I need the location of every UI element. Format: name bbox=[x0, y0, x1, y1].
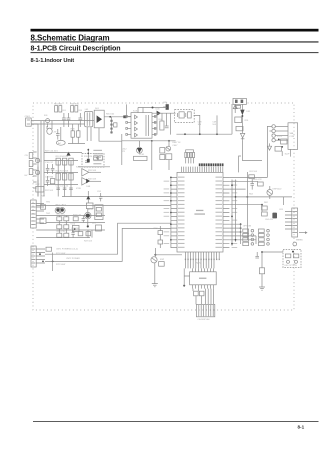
bridge diode D01 bbox=[94, 110, 104, 128]
junction dot ac bbox=[241, 115, 243, 117]
wire riser right of array bbox=[239, 156, 241, 172]
wire fan vert bbox=[159, 226, 161, 248]
diode D03 (dark) bbox=[123, 115, 126, 118]
label column right of MCU bbox=[232, 181, 238, 248]
wire mcu right runs bbox=[229, 177, 292, 239]
label ic05 bbox=[199, 278, 206, 279]
resistor R03 bbox=[71, 106, 74, 112]
IC02 bottom pins bbox=[185, 252, 219, 259]
svg-text:R01 R02: R01 R02 bbox=[54, 104, 63, 106]
ground G2 bbox=[259, 287, 265, 290]
junction dot buf bbox=[96, 157, 98, 159]
dotted frame of schematic bbox=[33, 103, 294, 310]
resistor R14 bbox=[62, 158, 66, 165]
wire vcc rail B bbox=[235, 180, 237, 242]
transistor Q02 bbox=[267, 190, 273, 200]
wire sense verticals bbox=[58, 161, 71, 197]
svg-text:R607 1K: R607 1K bbox=[172, 142, 181, 144]
capacitor C02 bbox=[67, 113, 71, 127]
bottom pin pads bbox=[185, 259, 220, 261]
svg-text:R47 103: R47 103 bbox=[84, 240, 93, 242]
fuse F01 bbox=[46, 119, 50, 123]
buffer dashed box bbox=[82, 154, 104, 167]
zener arrow (down open) bbox=[240, 133, 244, 140]
capacitor C24 bbox=[99, 193, 102, 201]
label column left of MCU bbox=[164, 181, 170, 244]
svg-text:R05 D02: R05 D02 bbox=[106, 114, 115, 116]
line filter L01 bbox=[85, 111, 93, 126]
junction dots zd bbox=[87, 149, 89, 151]
resistor R34 bbox=[57, 233, 62, 237]
resistor R05 bbox=[114, 123, 117, 127]
resistor R38 bbox=[71, 131, 74, 137]
microcontroller IC02 body bbox=[177, 172, 223, 252]
resistor R60 bbox=[160, 148, 165, 153]
buzzer BZ01 box bbox=[95, 205, 103, 220]
svg-text:R72 1/4W: R72 1/4W bbox=[56, 264, 65, 266]
resistor R16 bbox=[56, 173, 60, 180]
IC02 top pins bbox=[181, 167, 222, 173]
wire buf bottom bbox=[78, 166, 110, 168]
svg-text:WIRED: WIRED bbox=[296, 239, 303, 241]
resistor R48 bbox=[86, 232, 91, 236]
svg-text:KSP2222: KSP2222 bbox=[273, 188, 283, 190]
option resistor row8 bbox=[258, 242, 269, 245]
resistor R19 bbox=[94, 156, 98, 160]
wire sense risers bbox=[38, 161, 41, 197]
svg-text:R31 10K: R31 10K bbox=[88, 170, 97, 172]
svg-text:R13 R14 R15: R13 R14 R15 bbox=[56, 156, 69, 158]
plug circle P1 bbox=[36, 158, 40, 162]
svg-text:8-1-1.Indoor Unit: 8-1-1.Indoor Unit bbox=[31, 58, 75, 64]
resistor R24 bbox=[64, 217, 69, 221]
wire osc out bbox=[194, 115, 200, 134]
wire th verticals bbox=[59, 216, 66, 238]
wire inlet drops bbox=[234, 104, 236, 110]
wire th h3 bbox=[36, 229, 105, 231]
junction dot q01 bbox=[87, 225, 89, 227]
option resistor row4 bbox=[243, 242, 254, 245]
wire d02 column bbox=[111, 117, 113, 134]
wire disp verticals bbox=[193, 289, 214, 305]
resistor R61 bbox=[160, 155, 165, 160]
svg-text:R25 C15: R25 C15 bbox=[57, 231, 66, 233]
wire right rail bbox=[241, 115, 243, 160]
svg-text:TAB: TAB bbox=[289, 132, 294, 135]
capacitor C03 bbox=[78, 113, 82, 127]
wire bridge down bbox=[99, 128, 122, 141]
junction dot fan bbox=[154, 254, 156, 256]
wire sense top link bbox=[44, 152, 82, 154]
relay contact box bbox=[275, 147, 282, 152]
option resistor row5 bbox=[258, 229, 269, 232]
option resistor row7 bbox=[258, 238, 269, 241]
svg-text:R63 4.7K: R63 4.7K bbox=[253, 179, 262, 181]
option resistor row1 bbox=[243, 229, 254, 232]
wire to relay bbox=[242, 160, 262, 162]
svg-text:R09 C14 ZD1: R09 C14 ZD1 bbox=[45, 150, 59, 152]
wire cn04 stubs bbox=[285, 212, 292, 230]
resistor R07 bbox=[236, 105, 241, 108]
svg-text:C23 R46: C23 R46 bbox=[71, 228, 80, 230]
capacitor C07 bbox=[188, 112, 192, 118]
capacitor C22 bbox=[82, 216, 85, 223]
resistor R18 bbox=[69, 173, 73, 180]
svg-text:C10 C11 C12: C10 C11 C12 bbox=[56, 185, 69, 187]
relay RY01 coil box bbox=[281, 139, 287, 144]
wire vcc rail A bbox=[231, 180, 233, 246]
wire d09 bbox=[87, 191, 89, 203]
wire sw to left bbox=[262, 251, 283, 253]
svg-text:C612: C612 bbox=[122, 148, 128, 150]
svg-text:CN-DISPLAY: CN-DISPLAY bbox=[197, 318, 210, 321]
connector CN02 (left border, sensors) bbox=[31, 200, 37, 228]
svg-text:CN71 POWER(T-3.5-2): CN71 POWER(T-3.5-2) bbox=[56, 249, 78, 251]
header: section title bar bbox=[31, 29, 319, 64]
svg-text:R44 C22: R44 C22 bbox=[73, 214, 82, 216]
terminal circle 4 bbox=[272, 139, 288, 142]
wire top short bus bbox=[138, 107, 167, 109]
tact switch dashed box bbox=[283, 249, 301, 267]
varistor arrow (up) bbox=[233, 105, 237, 113]
wire sec bottom bus bbox=[122, 140, 176, 142]
wire mcu bottom joins bbox=[185, 259, 214, 269]
wire vcc rail bbox=[176, 133, 232, 135]
resistor array RA01 bbox=[185, 150, 195, 164]
svg-text:IC3A: IC3A bbox=[76, 165, 81, 168]
op-amp U2A bbox=[82, 169, 101, 176]
transistor Q03 bbox=[151, 248, 157, 263]
wire left pin rail bbox=[170, 177, 172, 247]
junction dots bus bbox=[240, 223, 242, 225]
diode D09 (up, dark) bbox=[86, 196, 90, 200]
capacitor C13 bbox=[85, 161, 89, 163]
resistor R15 bbox=[69, 158, 73, 165]
wire sw gnd chain bbox=[261, 252, 263, 287]
resistor R36 bbox=[50, 179, 54, 184]
svg-text:BUZ1: BUZ1 bbox=[88, 209, 94, 211]
wire fan tap bbox=[155, 254, 182, 256]
capacitor C20 bbox=[250, 179, 254, 190]
resistor R55 bbox=[199, 291, 204, 296]
resistor R08 bbox=[235, 117, 242, 123]
svg-text:CON: CON bbox=[289, 136, 294, 138]
connector CN05 display bbox=[196, 304, 214, 316]
resistor R23 bbox=[57, 217, 62, 221]
svg-text:C16 C17: C16 C17 bbox=[45, 162, 54, 164]
circle jack bbox=[293, 242, 297, 246]
schematic drawing bbox=[25, 98, 308, 321]
wire th h4 bbox=[36, 237, 90, 239]
wire to MCU row2 bbox=[36, 205, 171, 207]
label stack rows bbox=[93, 150, 103, 165]
resistor R01 bbox=[55, 106, 58, 112]
resistor R50 bbox=[158, 231, 163, 235]
wire sense h1 bbox=[44, 160, 78, 162]
svg-text:KSP: KSP bbox=[160, 259, 165, 261]
resistor R06 bbox=[160, 121, 164, 130]
wire second drop bbox=[40, 121, 42, 206]
IC02 left pins bbox=[171, 177, 177, 247]
svg-text:OPTION: OPTION bbox=[243, 226, 251, 228]
resistor R25 bbox=[57, 225, 62, 229]
junction dot bbox=[109, 116, 111, 118]
junction dot sw bbox=[292, 251, 294, 253]
capacitor C23 bbox=[71, 230, 74, 238]
junction dot disp bbox=[183, 285, 185, 287]
wire sense h3 bbox=[44, 184, 78, 186]
resistor R20 bbox=[99, 156, 103, 160]
capacitor C01 bbox=[62, 113, 66, 127]
svg-text:R37 103: R37 103 bbox=[45, 190, 54, 192]
wire terminals left join bbox=[267, 126, 272, 143]
resistor R45 bbox=[259, 268, 264, 274]
resistor R39 bbox=[77, 131, 80, 137]
svg-text:C607: C607 bbox=[172, 145, 178, 147]
IC04 reset bbox=[72, 225, 79, 231]
capacitor C06 bbox=[165, 126, 169, 128]
LED LD01 bbox=[55, 208, 61, 214]
diode D05 (dark) bbox=[240, 110, 244, 116]
plug circle P2 bbox=[36, 170, 40, 174]
transistor Q01 (dark core) bbox=[85, 212, 91, 218]
capacitor C16 bbox=[46, 164, 50, 174]
IC05 bottom pins bbox=[192, 285, 213, 289]
driver IC05 body bbox=[190, 272, 217, 285]
terminal circle 2 bbox=[272, 129, 288, 132]
transistor Q05 (dark) bbox=[137, 147, 143, 153]
wire AC neutral drop bbox=[31, 124, 38, 197]
wire zd02 bbox=[87, 149, 89, 159]
junction dots left rail bbox=[170, 177, 172, 241]
junction dot sec bbox=[151, 140, 153, 142]
wire relay to mcu bbox=[266, 143, 268, 177]
svg-text:R19 R20: R19 R20 bbox=[84, 156, 93, 158]
junction dots right bbox=[247, 196, 249, 198]
IC05 top pins bbox=[192, 268, 213, 271]
svg-text:8-1: 8-1 bbox=[298, 424, 305, 429]
svg-text:R16 R17 R18: R16 R17 R18 bbox=[56, 171, 69, 173]
terminal block TB02 bbox=[288, 123, 298, 150]
wire disp left bbox=[184, 268, 189, 285]
svg-text:IC3B: IC3B bbox=[76, 188, 81, 190]
resistor R42 bbox=[262, 206, 268, 210]
resistor R33 bbox=[64, 225, 69, 229]
option resistor row2 bbox=[243, 233, 254, 236]
capacitor C17 bbox=[51, 164, 55, 174]
diode D07 (up) bbox=[66, 152, 70, 156]
capacitor C05 electrolytic bbox=[163, 104, 169, 110]
junction dot sw2 bbox=[261, 251, 263, 253]
connector CN01 AC input (left border) bbox=[26, 118, 32, 126]
resistor R35 bbox=[64, 233, 69, 237]
resistor R13 bbox=[56, 158, 60, 165]
wire neutral bus2 bbox=[31, 123, 84, 125]
ground G3 bbox=[152, 284, 158, 287]
svg-text:LED1 LED2: LED1 LED2 bbox=[55, 204, 67, 206]
resistor R21 bbox=[40, 205, 45, 209]
junction dot relay bbox=[278, 139, 280, 141]
diode D08 bbox=[86, 179, 90, 184]
resistor R54 bbox=[194, 291, 199, 296]
svg-text:CN: CN bbox=[25, 155, 29, 157]
resistor R41 bbox=[249, 175, 255, 179]
crystal X01 bbox=[177, 112, 185, 118]
resistor R46 bbox=[78, 232, 83, 236]
switch SW01 bbox=[285, 254, 290, 263]
wire sec drops bbox=[156, 113, 158, 134]
capacitor C30 bbox=[255, 252, 259, 258]
IC02 right pins bbox=[223, 177, 229, 247]
capacitor C11 bbox=[63, 188, 67, 190]
wire left border stubs bbox=[33, 152, 37, 188]
label IC02 bbox=[196, 210, 203, 211]
label AC220V oval bbox=[56, 127, 65, 145]
connector stack on border bbox=[29, 153, 33, 175]
resistor R22 bbox=[40, 218, 46, 224]
footer bbox=[33, 421, 319, 429]
resistor R53 bbox=[159, 262, 165, 267]
wire fuse bus verticals bbox=[44, 121, 52, 197]
connector CN04 (right border) bbox=[292, 208, 298, 237]
capacitor C21 (dark) bbox=[272, 213, 277, 219]
wire relay box down bbox=[289, 149, 291, 156]
wire bus W2 bbox=[45, 228, 171, 261]
wire lower links bbox=[68, 124, 85, 144]
varistor ZV01 bbox=[47, 126, 52, 134]
svg-text:R03 R04: R03 R04 bbox=[70, 104, 79, 106]
wire bus W1 bbox=[45, 223, 171, 254]
wire th h1 bbox=[46, 215, 105, 217]
wire th link1 bbox=[88, 230, 92, 238]
wire right verticals bbox=[247, 172, 283, 240]
wire sense h2 bbox=[44, 172, 78, 174]
resistor R27 bbox=[96, 225, 102, 231]
wire AC live bus bbox=[31, 120, 94, 122]
svg-text:K/D OPTION: K/D OPTION bbox=[285, 265, 298, 267]
IC02 left pin labels bbox=[178, 177, 185, 248]
svg-text:CN01: CN01 bbox=[25, 116, 31, 118]
wire secondary bbox=[152, 112, 176, 114]
svg-text:C64 470: C64 470 bbox=[265, 219, 274, 221]
junction dot top bus bbox=[152, 107, 154, 109]
switch SW02 bbox=[293, 254, 298, 263]
resistor R51 bbox=[158, 240, 163, 244]
option resistor row3 bbox=[243, 238, 254, 241]
svg-text:RA72: RA72 bbox=[196, 261, 202, 264]
terminal circle 3 bbox=[272, 134, 288, 137]
svg-text:RY71: RY71 bbox=[277, 136, 283, 138]
IC02 right pin labels bbox=[216, 177, 223, 248]
connector CN03 power out (left) bbox=[31, 246, 36, 267]
svg-text:PC01: PC01 bbox=[139, 154, 145, 156]
capacitor C25 bbox=[236, 126, 243, 130]
wire rectified + bbox=[104, 116, 131, 118]
svg-text:R71 1/4W: R71 1/4W bbox=[56, 253, 65, 255]
wire q03 down bbox=[154, 263, 156, 284]
wire th h2 bbox=[46, 222, 105, 224]
resistor R29 bbox=[46, 247, 52, 251]
svg-text:8.Schematic Diagram: 8.Schematic Diagram bbox=[31, 33, 110, 42]
pull-up pad row (dark) bbox=[199, 163, 224, 166]
svg-text:R32 10K: R32 10K bbox=[88, 179, 97, 181]
junction dot pw bbox=[52, 261, 54, 263]
capacitor C18 bbox=[46, 176, 50, 186]
wire relay drive bbox=[281, 151, 283, 156]
svg-text:8-1.PCB Circuit Description: 8-1.PCB Circuit Description bbox=[31, 44, 121, 52]
resistor R44 bbox=[73, 217, 78, 221]
wire sec verticals2 bbox=[139, 141, 169, 170]
resistor R65 bbox=[166, 154, 172, 160]
wire sense h4 / to MCU bbox=[62, 196, 171, 198]
resistor R17 bbox=[62, 173, 66, 180]
wire filter legs bbox=[87, 127, 91, 141]
svg-text:C18 R36: C18 R36 bbox=[45, 177, 54, 179]
svg-text:C61 104: C61 104 bbox=[249, 171, 258, 173]
op-amp U2B bbox=[82, 178, 101, 185]
IC01 SMPS regulator DIP bbox=[126, 113, 156, 139]
capacitor C12 bbox=[69, 188, 73, 190]
svg-text:S-DF: S-DF bbox=[285, 153, 291, 155]
junction dots rails bbox=[231, 184, 233, 186]
svg-text:AC: AC bbox=[58, 142, 61, 145]
diode D04 output bbox=[157, 111, 161, 116]
wire cn03 stubs bbox=[36, 249, 45, 263]
wire q01 links bbox=[87, 209, 89, 226]
capacitor C10 bbox=[56, 188, 60, 190]
resistor R43 bbox=[262, 212, 268, 216]
wire smps drop bbox=[126, 104, 128, 116]
heatsink plate bbox=[134, 156, 148, 160]
wire option drop bbox=[241, 224, 256, 244]
resistor R12 bbox=[36, 186, 44, 192]
power terminal block TB01 (top border) bbox=[233, 98, 246, 104]
option resistor row6 bbox=[258, 233, 269, 236]
svg-text:R23 R24: R23 R24 bbox=[57, 215, 66, 217]
ground symbol bbox=[267, 143, 271, 150]
wire IC01 tops bbox=[137, 108, 139, 113]
LED LD02 bbox=[59, 208, 65, 214]
wire cn02 stubs bbox=[36, 204, 46, 224]
svg-text:CN72 POWER: CN72 POWER bbox=[66, 258, 80, 260]
resistor R02 bbox=[59, 106, 62, 112]
capacitor C19 bbox=[56, 129, 60, 140]
zener ZD02 (dark) bbox=[87, 159, 90, 163]
oscillator sub-circuit dashed box bbox=[175, 110, 195, 123]
resistor R40 bbox=[258, 182, 264, 186]
resistor R04 bbox=[75, 106, 78, 112]
wire rail risers bbox=[216, 115, 218, 134]
arrow external bbox=[299, 231, 308, 234]
wire cn03 down stub bbox=[52, 253, 54, 272]
transistor Q04 bbox=[166, 146, 171, 151]
terminal circle 1 bbox=[272, 125, 288, 128]
junction dots rail bbox=[184, 133, 186, 135]
resistor R26 bbox=[86, 203, 93, 209]
diode column D02 bbox=[111, 120, 113, 134]
